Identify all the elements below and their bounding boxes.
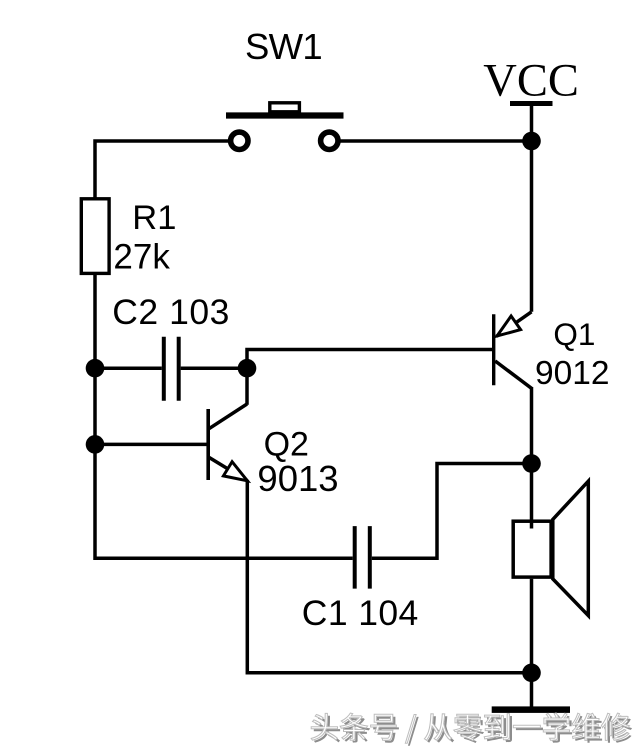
transistor Q1 xyxy=(494,312,532,389)
speaker xyxy=(513,481,588,615)
wire C2 junction to Q2 collector xyxy=(245,368,249,405)
svg-text:C1 104: C1 104 xyxy=(302,593,419,633)
junction node ground rail xyxy=(522,664,541,683)
junction node R1/Q2 base xyxy=(86,435,105,454)
wire switch right terminal to VCC rail xyxy=(338,139,532,143)
wire R1 rail to Q2 base xyxy=(95,443,207,447)
svg-text:9012: 9012 xyxy=(535,355,610,392)
junction node C2/Q1 base/Q2 collector xyxy=(238,359,257,378)
wire C1 to Q1 collector junction xyxy=(372,464,532,559)
svg-text:27k: 27k xyxy=(113,238,170,277)
wire R1 down left rail to C1 xyxy=(95,272,353,558)
svg-text:SW1: SW1 xyxy=(245,26,322,67)
wire C2 to Q1 base xyxy=(247,350,492,369)
junction node Q1 collector/C1/speaker xyxy=(522,454,541,473)
wire junction to ground xyxy=(530,673,534,708)
VCC terminal bar xyxy=(510,101,553,106)
resistor R1 xyxy=(81,199,109,274)
wire VCC to Q1 emitter xyxy=(530,104,534,312)
junction node R1/C2 xyxy=(86,359,105,378)
svg-text:9013: 9013 xyxy=(257,458,338,499)
svg-text:C2 103: C2 103 xyxy=(112,292,230,332)
junction node VCC/switch xyxy=(522,132,541,151)
ground xyxy=(492,706,570,713)
transistor Q2 xyxy=(208,404,247,481)
pushbutton switch SW1 xyxy=(226,103,344,150)
wire Q2 emitter to ground rail xyxy=(247,480,531,673)
wire Q1 collector to speaker xyxy=(530,387,534,522)
capacitor C1 xyxy=(355,526,370,589)
svg-text:VCC: VCC xyxy=(483,56,579,107)
wire switch left terminal to R1 xyxy=(95,141,231,200)
svg-text:Q1: Q1 xyxy=(553,316,595,352)
capacitor C2 xyxy=(95,337,247,401)
wire speaker to ground junction xyxy=(530,579,534,673)
svg-text:R1: R1 xyxy=(132,199,176,237)
